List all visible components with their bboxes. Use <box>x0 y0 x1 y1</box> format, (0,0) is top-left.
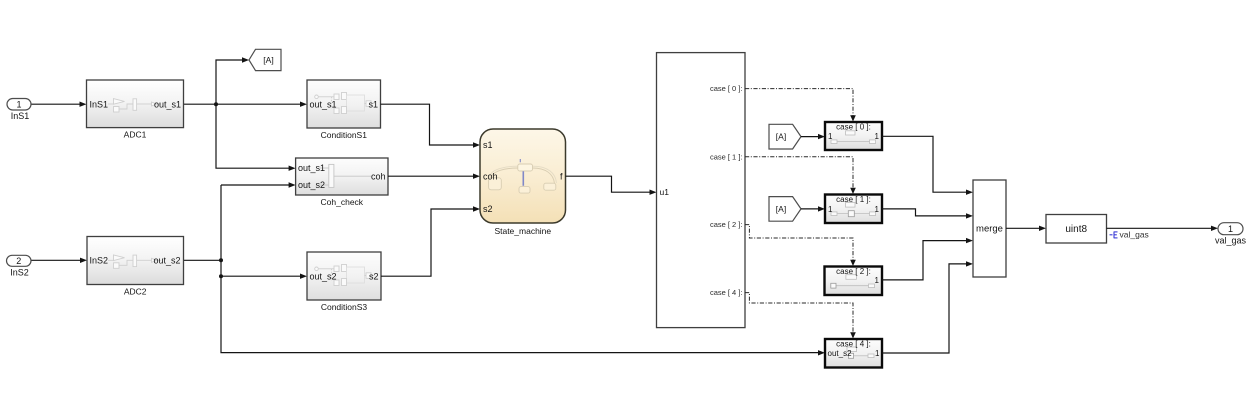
wire ADC2 out to junction <box>184 259 222 261</box>
wire Coh_check to State_machine coh <box>388 174 480 179</box>
svg-text:case [ 1 ]:: case [ 1 ]: <box>836 195 871 204</box>
subsystem Coh_check <box>296 158 388 207</box>
action wire case 2 <box>745 225 856 266</box>
svg-text:ADC1: ADC1 <box>124 130 147 140</box>
svg-text:1: 1 <box>828 205 833 214</box>
from tag A (case 1) <box>769 197 801 222</box>
svg-text:InS1: InS1 <box>11 111 30 121</box>
svg-text:out_s2: out_s2 <box>310 271 337 281</box>
stateflow chart State_machine <box>480 129 566 236</box>
svg-text:InS2: InS2 <box>90 255 109 265</box>
wire case2 to merge <box>882 238 973 280</box>
wire InS2 to ADC2 <box>31 258 87 263</box>
svg-text:[A]: [A] <box>263 55 273 65</box>
svg-text:2: 2 <box>16 256 21 266</box>
svg-text:State_machine: State_machine <box>494 226 551 236</box>
wire merge to uint8 <box>1006 226 1046 231</box>
subsystem ConditionS3 <box>307 252 381 312</box>
action wire case 1 <box>745 157 856 194</box>
goto tag A <box>249 49 281 70</box>
svg-text:uint8: uint8 <box>1065 224 1087 235</box>
svg-text:InS1: InS1 <box>90 99 109 109</box>
svg-text:case [ 4 ]:: case [ 4 ]: <box>836 340 871 349</box>
wire from tag to case0 <box>801 134 825 139</box>
svg-text:[A]: [A] <box>776 204 786 214</box>
switch case block <box>657 53 746 328</box>
svg-text:case [ 2 ]:: case [ 2 ]: <box>710 220 743 229</box>
wire junction to Coh_check in1 <box>216 104 296 171</box>
svg-text:val_gas: val_gas <box>1215 236 1247 246</box>
wire ConditionS1 to State_machine s1 <box>381 104 481 148</box>
svg-text:ADC2: ADC2 <box>124 287 147 297</box>
svg-text:out_s1: out_s1 <box>298 163 325 173</box>
wire junction to ConditionS3 <box>221 274 307 279</box>
svg-text:s2: s2 <box>483 204 493 214</box>
svg-text:out_s2: out_s2 <box>828 349 853 358</box>
input port 2 InS2 <box>7 255 32 277</box>
subsystem ADC1 <box>87 80 184 140</box>
wire ConditionS3 to State_machine s2 <box>381 206 480 276</box>
svg-text:1: 1 <box>1228 224 1233 234</box>
junction node on ADC1 output <box>214 102 218 106</box>
wire State_machine f to u1 <box>566 176 657 195</box>
svg-text:case [ 0 ]:: case [ 0 ]: <box>710 84 743 93</box>
svg-text:1: 1 <box>875 205 880 214</box>
svg-text:s1: s1 <box>483 140 493 150</box>
subsystem ConditionS1 <box>307 80 381 140</box>
svg-text:1: 1 <box>875 276 880 285</box>
svg-text:out_s2: out_s2 <box>153 255 180 265</box>
svg-text:merge: merge <box>976 224 1003 235</box>
svg-text:[A]: [A] <box>776 132 786 142</box>
svg-text:1: 1 <box>16 99 21 109</box>
input port 1 InS1 <box>7 99 31 122</box>
svg-text:ConditionS1: ConditionS1 <box>321 130 368 140</box>
svg-text:1: 1 <box>875 132 880 141</box>
action wire case 0 <box>745 89 856 122</box>
wire case4 to merge <box>882 261 973 353</box>
svg-text:ConditionS3: ConditionS3 <box>321 302 368 312</box>
junction ConditionS3 branch <box>219 274 223 278</box>
svg-text:out_s1: out_s1 <box>310 99 337 109</box>
vertical net from Coh_check in2 down to case4 <box>221 185 825 356</box>
wire to Coh_check in2 <box>221 182 296 187</box>
wire uint8 to outport <box>1107 226 1219 231</box>
wire ADC1 to ConditionS1 <box>184 102 308 107</box>
svg-text:val_gas: val_gas <box>1120 230 1149 240</box>
svg-text:coh: coh <box>371 171 386 181</box>
svg-text:1: 1 <box>875 349 880 358</box>
svg-text:s1: s1 <box>368 99 378 109</box>
svg-text:case [ 0 ]:: case [ 0 ]: <box>836 122 871 131</box>
wire from tag to case1 <box>801 206 825 211</box>
svg-text:1: 1 <box>828 132 833 141</box>
action subsystem case 2 <box>825 267 883 296</box>
svg-text:case [ 1 ]:: case [ 1 ]: <box>710 152 743 161</box>
wire to goto A <box>216 57 249 104</box>
action subsystem case 0 <box>825 122 882 150</box>
svg-text:s2: s2 <box>369 271 379 281</box>
from tag A (case 0) <box>769 124 801 149</box>
svg-text:case [ 2 ]:: case [ 2 ]: <box>836 267 871 276</box>
svg-text:out_s1: out_s1 <box>154 99 181 109</box>
merge block <box>973 180 1006 277</box>
svg-text:coh: coh <box>483 171 498 181</box>
junction ADC2 out <box>219 258 223 262</box>
action subsystem case 4 <box>825 339 882 368</box>
wire InS1 to ADC1 <box>31 102 87 107</box>
wire case1 to merge <box>882 209 973 219</box>
action wire case 4 <box>745 293 856 339</box>
action subsystem case 1 <box>825 195 882 224</box>
signal logging badge and label val_gas <box>1110 230 1149 240</box>
svg-text:out_s2: out_s2 <box>298 180 325 190</box>
svg-text:Coh_check: Coh_check <box>321 197 364 207</box>
subsystem ADC2 <box>87 237 184 297</box>
svg-text:u1: u1 <box>660 187 670 197</box>
wire case0 to merge <box>882 136 973 195</box>
data type conversion uint8 <box>1046 215 1107 244</box>
output port 1 val_gas <box>1215 223 1247 246</box>
svg-text:case [ 4 ]:: case [ 4 ]: <box>710 288 743 297</box>
svg-text:InS2: InS2 <box>10 268 29 278</box>
